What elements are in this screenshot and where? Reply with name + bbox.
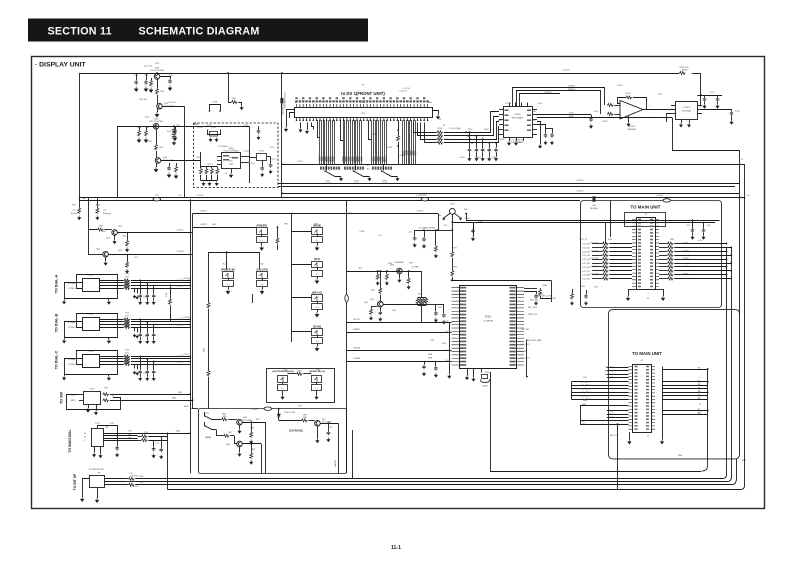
svg-text:KEY: KEY [314, 224, 319, 226]
IC5 right lower vertical [526, 340, 528, 377]
IC551 bottom pins [509, 137, 511, 141]
svg-text:R203: R203 [684, 250, 690, 252]
wires J2 left group B [572, 381, 629, 383]
transistor Q59 [378, 301, 384, 307]
svg-text:R761: R761 [134, 476, 140, 478]
svg-text:TO MAIN UNIT: TO MAIN UNIT [632, 351, 662, 356]
op-amp feedback loop [618, 98, 626, 104]
IC553 pins left [671, 105, 676, 107]
resistor R86 vertical [251, 422, 253, 431]
svg-text:IC553: IC553 [684, 107, 691, 109]
wire JK CALLER feed [209, 252, 260, 254]
wire mid rail A [282, 164, 745, 166]
svg-text:LCD_B: LCD_B [580, 239, 587, 241]
IC551 inner pin label rects [505, 110, 509, 112]
wire mid rail B [278, 183, 740, 185]
svg-text:21.25MHz: 21.25MHz [218, 146, 227, 148]
svg-text:R561: R561 [438, 128, 444, 130]
junction dot Q3 rail [155, 125, 157, 127]
svg-text:TXD: TXD [610, 371, 615, 373]
svg-text:C564: C564 [476, 157, 482, 159]
svg-text:LCD5V: LCD5V [657, 195, 664, 197]
wire mid rail C [278, 186, 735, 188]
svg-text:R560 100: R560 100 [679, 67, 689, 69]
svg-text:C575: C575 [594, 111, 600, 113]
svg-text:SW: SW [283, 370, 286, 372]
capacitor pair small TO DIAL-B [134, 327, 136, 332]
ground TO DIAL-C bottom [108, 374, 110, 376]
svg-text:C571: C571 [538, 103, 544, 105]
resistor R560 on rail [679, 72, 685, 75]
svg-text:SEG: SEG [498, 120, 503, 122]
capacitor C76 [328, 423, 330, 430]
resistor R91 on stem [451, 251, 454, 257]
svg-text:BLM11A: BLM11A [590, 207, 598, 210]
resistor column grounds [202, 182, 205, 186]
svg-text:[FUNC]: [FUNC] [325, 183, 332, 185]
connector J1 left pins [632, 220, 636, 287]
junction dot rail E right [744, 197, 746, 199]
wire right long vertical [744, 164, 746, 485]
resistor R57 [78, 208, 81, 214]
svg-text:IC552: IC552 [629, 126, 636, 128]
wire comb group 1 [320, 120, 335, 164]
wire backlight vertical [281, 73, 283, 198]
wire loopA inner vertical b [605, 223, 607, 244]
wire loopB right vertical [739, 150, 741, 454]
svg-text:S-80745AL: S-80745AL [682, 110, 691, 113]
svg-text:RST5V: RST5V [545, 92, 552, 94]
svg-text:R209: R209 [684, 274, 690, 276]
svg-text:IC551: IC551 [505, 103, 511, 105]
svg-text:LCD1B: LCD1B [68, 288, 75, 290]
connector J1 pin numbers [638, 219, 641, 221]
wire CALLER drop [252, 294, 254, 303]
wire Q5 base feed [89, 198, 98, 230]
svg-text:OUT: OUT [532, 120, 537, 122]
wire mic branch left [438, 230, 452, 232]
svg-text:IC75: IC75 [95, 423, 100, 425]
comb group labels 3 [371, 157, 372, 162]
Q1 left cluster wires [136, 73, 138, 80]
wire TXD lower [537, 114, 591, 116]
IC74 right pins with resistors [103, 393, 109, 396]
svg-text:KEY5: KEY5 [585, 399, 591, 401]
svg-text:VCC: VCC [229, 161, 234, 163]
svg-text:· DISPLAY UNIT: · DISPLAY UNIT [35, 62, 86, 69]
resistor R50 near rail [231, 101, 237, 104]
svg-text:KEY_IN1: KEY_IN1 [530, 300, 539, 302]
wire Q3 to Q4 [156, 151, 158, 158]
resistor R208 row [659, 274, 667, 276]
crystal X752 [246, 156, 250, 158]
svg-text:C756: C756 [244, 125, 250, 127]
svg-text:SECTION 11: SECTION 11 [48, 25, 112, 37]
capacitor C81 [435, 304, 437, 311]
svg-text:LCD5V: LCD5V [563, 70, 570, 72]
capacitor drops TO DIAL-A [140, 280, 142, 293]
svg-text:[AFC]: [AFC] [314, 258, 320, 261]
wire loop under opamp [673, 118, 740, 151]
svg-text:COM2: COM2 [371, 134, 378, 136]
IC74 left pins [79, 394, 83, 396]
connector J751 bottom pins [297, 118, 428, 121]
connector J751 bottom pin dots [297, 119, 428, 121]
diode D52 [278, 409, 280, 414]
resistor R754 [217, 167, 219, 169]
junction dots SW [189, 393, 191, 395]
switch S751 [326, 164, 328, 170]
wire RST5V [520, 94, 561, 107]
svg-text:[CALLER]: [CALLER] [257, 268, 268, 271]
row junction dots right [726, 243, 728, 245]
J71 body [90, 476, 105, 488]
svg-text:R52 10k: R52 10k [139, 99, 148, 101]
ferrite bead L52 [421, 198, 429, 201]
IC751 pins left [217, 156, 222, 158]
IC75 body [92, 429, 104, 447]
svg-text:IC71: IC71 [89, 275, 94, 277]
svg-text:LCD5C: LCD5C [177, 230, 184, 232]
resistor stack R96 [418, 297, 427, 299]
transistor Q1 [154, 74, 160, 80]
connector J2 bottom grounds [629, 432, 631, 440]
comb group labels 4 [402, 151, 403, 156]
comb group labels 1 [319, 157, 320, 162]
svg-text:LCD 33: LCD 33 [399, 91, 407, 93]
switch S771 [Talk] [205, 416, 216, 420]
IC75 top loop wire [98, 426, 118, 444]
wires J2 left group A [607, 367, 629, 369]
wire branch y227 [193, 227, 255, 229]
resistor R97 [379, 288, 382, 294]
svg-text:KEY3: KEY3 [585, 392, 591, 394]
wire center branch y271 [347, 271, 422, 273]
Q53 ground [114, 235, 116, 239]
svg-text:FM_LCD5: FM_LCD5 [528, 307, 538, 309]
capacitor C574 isolated [702, 110, 732, 112]
svg-text:OSC_OUT: OSC_OUT [520, 358, 531, 360]
wire TCXO out to rail B [246, 162, 250, 164]
wire IC551 right drop [537, 122, 541, 145]
svg-text:R-JK: R-JK [223, 264, 228, 266]
op-amp IC552 [620, 101, 643, 120]
svg-text:L51 4.5V: L51 4.5V [144, 66, 153, 68]
svg-text:[MR A-D]: [MR A-D] [312, 291, 322, 294]
wire keybox column feed [291, 214, 293, 343]
junction dots J2 right [707, 368, 709, 370]
capacitor C55 [167, 166, 171, 171]
svg-text:KEY4: KEY4 [585, 396, 591, 398]
capacitor C91 [692, 220, 694, 228]
svg-text:DTA144EE: DTA144EE [394, 261, 404, 264]
connector J751 top pins [297, 104, 428, 107]
svg-text:LCD_B0: LCD_B0 [590, 243, 599, 245]
capacitor C572 [704, 95, 706, 97]
capacitor C77 [414, 230, 416, 236]
IC5 left pins [452, 288, 460, 365]
resistor array TO DIAL-B [100, 319, 124, 321]
svg-text:C757: C757 [270, 147, 276, 149]
ground TO DIAL-A loop [64, 298, 66, 300]
Q58 emitter [399, 274, 401, 278]
svg-text:LCD_B3: LCD_B3 [582, 255, 590, 257]
connector right drop wires [414, 123, 437, 133]
resistor R753 [211, 167, 213, 169]
svg-text:R571: R571 [618, 85, 624, 87]
J71 left wire to ground [83, 479, 90, 498]
switch S753 [383, 164, 385, 170]
resistor R207 row [659, 270, 667, 272]
keyswitch group speed mic [312, 376, 322, 383]
capacitor C562 [482, 139, 484, 147]
IC5 right top loop [452, 280, 552, 282]
comb group labels 2 [343, 157, 344, 162]
resistor R205 row [659, 263, 667, 265]
svg-text:R762: R762 [134, 486, 140, 488]
Q55 ground [239, 425, 241, 429]
resistor array TO DIAL-A [100, 280, 124, 282]
wire Q54 base [88, 254, 103, 256]
wire long rail F [79, 200, 580, 202]
IC551 left pins [499, 109, 503, 111]
ferrite bead L55 on loopA [663, 199, 671, 202]
resistor R565 vertical in comb [398, 120, 400, 135]
connector J2 body [633, 365, 652, 433]
svg-text:X752: X752 [259, 151, 265, 153]
svg-text:KEY1: KEY1 [585, 385, 591, 387]
wire Q59 collector [383, 304, 421, 306]
svg-text:LCD_RST: LCD_RST [520, 344, 530, 346]
svg-text:C565: C565 [492, 157, 498, 159]
svg-text:LCD_B6: LCD_B6 [590, 266, 599, 268]
svg-text:LCD DRV: LCD DRV [495, 139, 505, 141]
wire Q1 to Q2 [157, 95, 159, 104]
svg-text:LCD1D: LCD1D [177, 362, 184, 364]
svg-text:KEY_IN2: KEY_IN2 [521, 329, 530, 331]
capacitor C79 right of mic [452, 223, 473, 229]
svg-text:FM_BUSY_ABC: FM_BUSY_ABC [527, 339, 542, 342]
resistor R82 vertical [208, 252, 210, 302]
svg-text:LCD1D: LCD1D [177, 286, 184, 288]
svg-text:R754: R754 [198, 127, 204, 129]
wire Q2 collector right [162, 106, 184, 108]
svg-text:R511: R511 [543, 285, 549, 287]
svg-text:LCD_B4: LCD_B4 [590, 258, 599, 260]
svg-text:TXD: TXD [610, 367, 615, 369]
capacitor C571 left of opamp [591, 115, 593, 117]
svg-text:VDD: VDD [532, 111, 537, 113]
ground TO DIAL-B loop [64, 337, 66, 339]
svg-text:to DS 1(FRONT UNIT): to DS 1(FRONT UNIT) [341, 91, 385, 96]
wire IC5 row 4 [347, 361, 452, 363]
svg-text:AFO: AFO [582, 420, 587, 423]
svg-text:LCD1D: LCD1D [177, 325, 184, 327]
svg-text:R573: R573 [603, 121, 609, 123]
wire comb group 2 [344, 120, 362, 164]
resistor column bottom bar [201, 180, 218, 182]
connector J751 top pin labels [295, 100, 297, 102]
wire long rail E [79, 197, 745, 199]
resistor R83 vertical [207, 370, 210, 376]
svg-text:LCD24: LCD24 [381, 161, 388, 163]
svg-text:C573: C573 [710, 92, 716, 94]
transistor Q58 [397, 268, 403, 274]
svg-text:LCD4M: LCD4M [411, 267, 418, 269]
crystal cap C753 [262, 161, 264, 167]
svg-text:R201: R201 [684, 243, 690, 245]
svg-text:IC72: IC72 [89, 314, 94, 316]
header bar [28, 19, 368, 42]
svg-text:M: M [439, 215, 441, 217]
capacitor C573 [717, 95, 719, 97]
wire vertical from Q2 [184, 106, 186, 198]
svg-text:LCD5V: LCD5V [577, 180, 584, 182]
svg-text:LCD_B2: LCD_B2 [590, 250, 599, 252]
transistor Q2 [157, 103, 163, 109]
IC551 right pins [533, 109, 538, 111]
comb labels below rail 3 [372, 167, 374, 170]
svg-text:RXD: RXD [610, 411, 615, 413]
capacitor C75b [153, 440, 155, 447]
capacitor C80 [379, 311, 383, 316]
resistor R75b [141, 439, 147, 442]
junction dots resistor rows [465, 131, 467, 133]
svg-text:C561: C561 [468, 129, 474, 131]
wire L7A link [170, 284, 172, 298]
svg-text:TO INT SP: TO INT SP [73, 473, 77, 490]
svg-text:SDA5V: SDA5V [353, 328, 360, 331]
resistor array TO DIAL-C [100, 356, 124, 358]
wire left frame vertical [79, 73, 81, 201]
svg-text:TO SW: TO SW [60, 391, 64, 404]
transistor Q55 [237, 419, 243, 425]
ferrite bead L54 on talk top [264, 407, 272, 410]
svg-text:IC73: IC73 [89, 351, 94, 353]
connector J751 body [295, 108, 433, 118]
left drop wires to ground [300, 123, 302, 129]
wire RXD lower [537, 117, 672, 119]
svg-text:LCD_B9: LCD_B9 [582, 279, 590, 281]
svg-text:LCD3V: LCD3V [577, 191, 584, 193]
svg-text:GND: GND [229, 164, 234, 166]
svg-text:C511: C511 [552, 298, 558, 300]
wire TXD pair into loopA [466, 220, 720, 222]
wire talk block risers [352, 430, 354, 479]
svg-text:LCD_B8: LCD_B8 [590, 274, 599, 276]
svg-text:KEY2: KEY2 [585, 389, 591, 391]
svg-text:C562: C562 [484, 129, 490, 131]
wire talk top left stub [192, 408, 198, 410]
IC5 right pin labels [510, 287, 516, 289]
resistor R75a [141, 435, 147, 438]
capacitor C576 [537, 125, 546, 134]
wire bottom bus 3 [136, 484, 732, 486]
wire Q54 collector right [108, 254, 192, 256]
IC5 right pins [517, 288, 525, 365]
capacitor C560 [469, 132, 471, 147]
svg-text:SP-: SP- [140, 482, 144, 484]
wire RXD5V [517, 91, 601, 115]
svg-text:LCD8: LCD8 [327, 161, 333, 163]
wire comb group 4 [403, 120, 416, 164]
connector J2 right collector [662, 367, 664, 431]
box autodialer [267, 369, 335, 403]
capacitor C54 [173, 129, 177, 134]
resistor R76a [128, 477, 134, 480]
IC751 inner labels [223, 155, 229, 157]
wire J2 vertical drop [617, 424, 619, 489]
svg-text:TO MAIN DIAL: TO MAIN DIAL [68, 429, 72, 452]
wire bottom bus riser 3 [736, 459, 738, 481]
svg-text:R752: R752 [197, 157, 203, 159]
Q3 left resistors [139, 126, 141, 130]
varistor D51 stack [174, 126, 176, 129]
bead on backlight vertical [280, 98, 283, 103]
wire branch drop to mic cluster [438, 214, 440, 231]
svg-text:LCD3V: LCD3V [417, 195, 424, 197]
wire loopA inner vertical a [610, 201, 612, 238]
schematic outer border [32, 57, 765, 509]
wire Q56 collector [242, 443, 261, 445]
svg-text:[SET]: [SET] [354, 183, 359, 185]
wire AF vertical [338, 423, 340, 473]
svg-text:[CLR]: [CLR] [382, 183, 388, 185]
svg-text:LC75853N: LC75853N [483, 321, 493, 323]
wires J2 left group D [580, 420, 629, 422]
wire rail drop right [700, 73, 702, 95]
svg-text:LCD1A: LCD1A [183, 277, 190, 280]
IC75 bottom grounds [94, 447, 96, 453]
Q4 right caps [169, 163, 171, 166]
IC74 grounds [88, 405, 90, 408]
wire Q3 feed [118, 126, 250, 128]
IC IC73 body [83, 355, 100, 368]
svg-text:R753: R753 [208, 164, 214, 166]
Q1 right cluster [160, 77, 171, 80]
svg-text:LCDRS: LCDRS [353, 348, 361, 350]
svg-text:TXD: TXD [610, 377, 615, 379]
vertical bus center-left b [192, 214, 194, 409]
resistor R572 opamp input2 [607, 113, 613, 116]
connector J2 right pins [651, 367, 655, 430]
svg-text:X751: X751 [194, 124, 200, 126]
svg-text:GND: GND [518, 142, 523, 144]
wire Q53 collector right [117, 232, 192, 234]
svg-text:C754: C754 [250, 163, 256, 165]
svg-text:R564: R564 [446, 139, 452, 141]
resistor R202 row [659, 251, 667, 253]
wire inner frame vertical [117, 126, 119, 198]
crystal cap C754 [270, 157, 272, 164]
svg-text:TXD: TXD [583, 377, 588, 379]
IC5 left pin labels [460, 287, 466, 289]
resistor R60 [127, 233, 129, 241]
capacitor drops TO DIAL-B [140, 319, 142, 332]
svg-text:R5B: R5B [428, 358, 433, 360]
wire IC5 row SCL [347, 322, 452, 324]
svg-text:LCD BACKLIGHT: LCD BACKLIGHT [418, 227, 435, 230]
svg-text:D52 LCD3S: D52 LCD3S [284, 412, 295, 414]
Q4 emitter ground [156, 163, 158, 167]
transistor Q57 charging [315, 421, 321, 427]
transistor Q56 [237, 441, 243, 447]
IC5 main LSI body [460, 286, 517, 369]
svg-text:[POWER-JK]: [POWER-JK] [221, 269, 235, 271]
vertical bus center [346, 201, 348, 474]
svg-text:LCD1: LCD1 [297, 161, 303, 163]
svg-text:C755: C755 [271, 159, 277, 161]
